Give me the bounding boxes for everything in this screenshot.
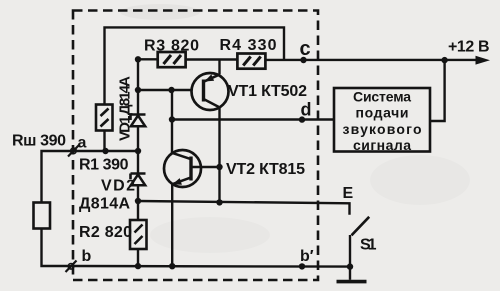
svg-text:d: d [301, 100, 312, 120]
svg-text:звукового: звукового [343, 121, 422, 137]
resistor R2 [130, 220, 147, 249]
wire: b rail y=266 [73, 263, 353, 270]
svg-text:b′: b′ [300, 248, 314, 265]
svg-text:R3 820: R3 820 [144, 37, 199, 54]
svg-text:R2 820: R2 820 [79, 224, 132, 241]
svg-text:VT1 КТ502: VT1 КТ502 [228, 83, 307, 100]
zener diode VD1 [131, 115, 146, 127]
svg-text:сигнала: сигнала [353, 137, 411, 153]
svg-text:Д814А: Д814А [79, 196, 130, 213]
resistor R1 [96, 105, 113, 131]
svg-text:+12 В: +12 В [448, 39, 490, 56]
wire: R1 bottom to node a wire [102, 131, 108, 155]
resistor R4 [237, 54, 265, 69]
node c [300, 57, 306, 63]
wire: VT1 collector down to VT2 base node and E line [216, 108, 222, 206]
wire: node d line to signal box [172, 118, 334, 120]
ground [337, 267, 367, 282]
zener diode VD2 [131, 174, 146, 186]
svg-text:Rш 390: Rш 390 [12, 133, 66, 150]
svg-text:b: b [82, 248, 92, 265]
wire: VT2 base from node [193, 166, 220, 168]
wire: VT2 emitter down to b rail [171, 184, 173, 266]
svg-text:E: E [343, 185, 354, 202]
wire: node a to VD1 chain [74, 150, 139, 152]
module boundary (dashed enclosure) [73, 11, 318, 281]
node b' [299, 263, 305, 269]
terminal b (breakaway slash) [66, 261, 77, 273]
svg-text:S1: S1 [360, 237, 377, 254]
wire: VT1 emitter to + rail [218, 60, 220, 75]
transistor VT2 (NPN, mirrored) [164, 150, 201, 187]
svg-text:R1 390: R1 390 [79, 157, 129, 174]
wire: VT2 collector up through node d to VT1 base line [169, 90, 175, 153]
wire: VD chain vertical x=138 [135, 59, 141, 266]
wire: VT1 base from VD1 node [138, 87, 192, 93]
signal system box [334, 88, 430, 153]
+12V supply arrow [441, 56, 490, 65]
wire: +collector rail y=60 with junction at VD1 node [135, 56, 477, 62]
terminal a (breakaway slash) [68, 145, 79, 157]
wire: top rail from R1 top across to +rail corner [105, 27, 285, 106]
svg-text:подачи: подачи [356, 105, 409, 121]
switch S1 (open blade) [350, 217, 369, 267]
resistor R3 [158, 52, 186, 67]
svg-text:VD2: VD2 [101, 178, 135, 195]
resistor Rsh (shunt) [34, 203, 51, 229]
svg-text:VT2 КТ815: VT2 КТ815 [226, 161, 305, 178]
svg-text:R4 330: R4 330 [220, 37, 277, 54]
wire: external loop a - Rsh - b [42, 151, 74, 266]
wire: +12V feed down to signal box [430, 60, 445, 121]
svg-text:a: a [78, 135, 87, 152]
transistor VT1 (PNP) [192, 73, 229, 110]
svg-text:Система: Система [353, 89, 411, 105]
svg-text:VD1 Д814А: VD1 Д814А [117, 76, 134, 141]
wire: E line from VD2/R2 node to switch corner [138, 201, 350, 215]
node d [299, 116, 305, 122]
svg-text:c: c [300, 38, 311, 60]
